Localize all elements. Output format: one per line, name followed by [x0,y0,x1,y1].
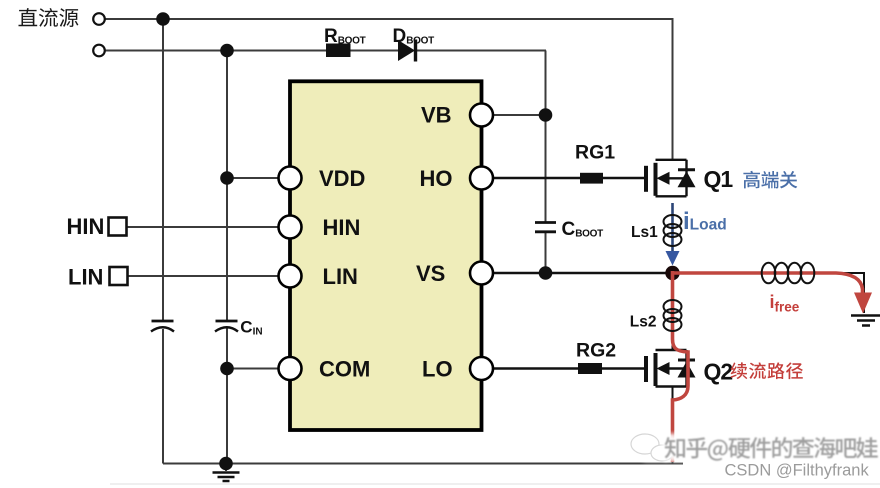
svg-text:COM: COM [319,357,370,382]
svg-text:CSDN @Filthyfrank: CSDN @Filthyfrank [725,462,870,480]
svg-text:Ls1: Ls1 [631,224,658,241]
svg-text:VS: VS [416,261,445,286]
svg-text:Q1: Q1 [704,166,734,192]
svg-text:RG2: RG2 [576,340,616,362]
svg-text:LO: LO [422,357,453,382]
svg-text:HIN: HIN [67,214,105,239]
svg-text:HIN: HIN [323,215,361,240]
svg-text:Ls2: Ls2 [630,313,657,330]
svg-text:LIN: LIN [68,264,103,289]
svg-text:VDD: VDD [319,166,365,191]
svg-text:VB: VB [421,103,452,128]
svg-text:LIN: LIN [323,264,358,289]
svg-text:HO: HO [420,166,453,191]
svg-text:Q2: Q2 [704,358,733,384]
svg-text:RG1: RG1 [575,142,615,164]
